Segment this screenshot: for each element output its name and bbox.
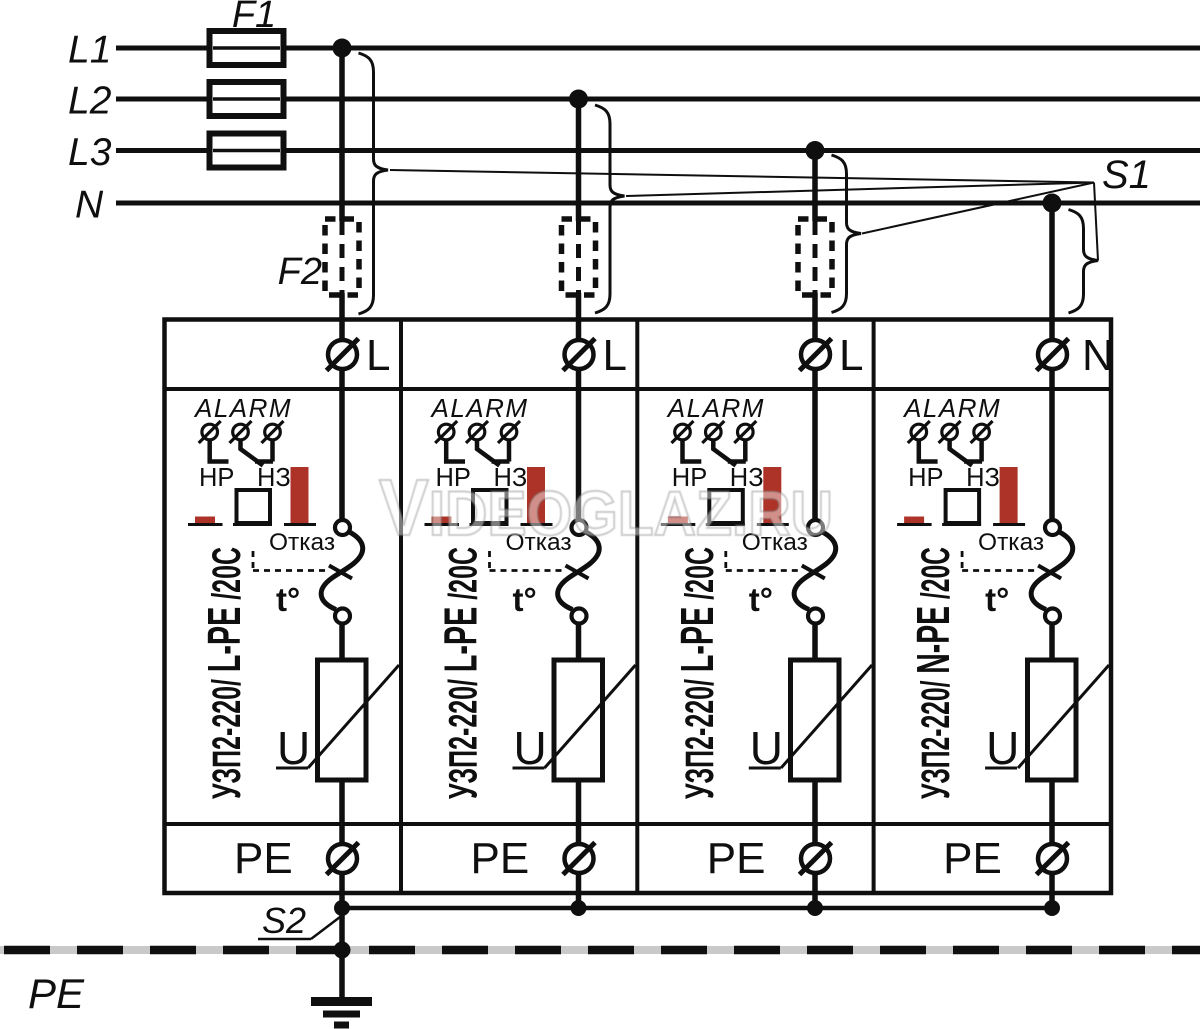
svg-text:F2: F2: [278, 251, 322, 293]
junction on N: [1043, 194, 1062, 213]
fuse F1 element on L3: [210, 134, 284, 168]
junction on L3: [806, 141, 825, 160]
svg-text:L1: L1: [68, 29, 111, 72]
ground (earth) symbol: [311, 997, 372, 1006]
brace S1 group N drop: [1069, 210, 1099, 314]
module U3 PE terminal: [801, 844, 830, 873]
svg-text:L3: L3: [68, 131, 112, 174]
dashed link to thermal disconnector: [961, 551, 964, 571]
svg-text:N: N: [75, 184, 104, 227]
line L1: [116, 46, 1200, 51]
svg-text:L: L: [603, 331, 627, 380]
svg-text:L2: L2: [68, 80, 112, 123]
leader line brace3 to S1: [862, 183, 1094, 234]
leader line brace1 to S1: [390, 170, 1094, 183]
dashed link to thermal disconnector: [252, 551, 255, 571]
varistor U: [318, 660, 367, 780]
svg-text:N: N: [1082, 331, 1114, 380]
line L2: [116, 97, 1200, 102]
svg-text:PE: PE: [471, 834, 530, 883]
svg-text:t°: t°: [749, 581, 773, 618]
svg-text:Отказ: Отказ: [978, 529, 1044, 556]
module U1 input terminal L: [328, 340, 357, 369]
indicator window square: [709, 490, 743, 523]
svg-text:НЗ: НЗ: [966, 464, 1000, 492]
svg-text:УЗП2-220/ L-PE /20C: УЗП2-220/ L-PE /20C: [671, 547, 723, 799]
svg-text:НР: НР: [199, 464, 234, 492]
junction on PE bus x=578.5: [571, 900, 587, 916]
wire drop from L3: [812, 151, 818, 222]
module U1 PE terminal: [328, 844, 357, 873]
indicator small red bar: [195, 517, 215, 524]
alarm contact terminal 2: [942, 424, 958, 440]
svg-text:Отказ: Отказ: [269, 529, 335, 556]
module U2 input terminal L: [565, 340, 594, 369]
column divider 1: [399, 320, 403, 894]
svg-text:U: U: [986, 722, 1019, 774]
dashed link to thermal disconnector: [724, 551, 727, 571]
alarm contact terminal 1: [438, 424, 454, 440]
module U3 input terminal L: [801, 340, 830, 369]
alarm contact terminal 1: [675, 424, 691, 440]
svg-text:S2: S2: [262, 900, 306, 941]
svg-text:НР: НР: [908, 464, 943, 492]
wire drop from N: [1049, 203, 1055, 362]
indicator tall red bar (Отказ): [763, 467, 781, 523]
alarm contact terminal 2: [469, 424, 485, 440]
svg-text:U: U: [514, 722, 547, 774]
device enclosure box: [165, 320, 1112, 894]
leader line S2 to wire: [311, 917, 340, 939]
line N: [116, 201, 1200, 206]
brace S1 group L2 drop: [595, 105, 625, 313]
wire drop from L1: [339, 48, 345, 221]
svg-text:t°: t°: [985, 581, 1009, 618]
fuse F2 (dashed) on drop x=342: [325, 219, 359, 295]
module U2 PE terminal: [565, 844, 594, 873]
wire to ground: [339, 908, 345, 997]
brace S1 group L3 drop: [832, 155, 862, 313]
junction on L2: [569, 90, 588, 109]
varistor U: [1028, 660, 1077, 780]
junction on PE bus x=342: [334, 900, 350, 916]
module U4 input terminal N: [1038, 340, 1067, 369]
svg-text:U: U: [750, 722, 783, 774]
fuse F1 element on L1: [210, 31, 284, 65]
alarm contact terminal 1: [911, 424, 927, 440]
PE main earthing bus (black dashes): [4, 946, 1200, 955]
NC contact (НЗ) wire: [477, 439, 500, 466]
fuse F2 (dashed) on drop x=815: [798, 219, 832, 295]
line L3: [116, 148, 1200, 153]
indicator window square: [237, 490, 271, 523]
PE main earthing bus (gray underlay): [0, 946, 1200, 954]
junction on PE bus: [334, 942, 351, 959]
column divider 3: [872, 320, 876, 894]
thermal disconnector contact: [572, 520, 587, 535]
SPD module U2 vertical wire: [576, 362, 582, 521]
svg-text:УЗП2-220/ N-PE /20C: УЗП2-220/ N-PE /20C: [907, 547, 959, 799]
alarm contact terminal 3: [265, 424, 281, 440]
indicator window square: [473, 490, 507, 523]
column divider 2: [635, 320, 639, 894]
brace S1 group L1 drop: [359, 53, 389, 314]
SPD module U4 vertical wire: [1049, 362, 1055, 521]
junction on PE bus x=815: [807, 900, 823, 916]
NC contact (НЗ) wire: [241, 439, 264, 466]
NO contact (НР) wire: [919, 440, 938, 462]
svg-text:ALARM: ALARM: [666, 393, 765, 423]
junction on PE bus x=1052: [1044, 900, 1060, 916]
SPD module U3 vertical wire: [812, 362, 818, 521]
varistor U: [554, 660, 603, 780]
indicator small red bar: [432, 517, 452, 524]
svg-text:ALARM: ALARM: [193, 393, 292, 423]
thermal disconnector contact: [808, 520, 823, 535]
svg-text:S1: S1: [1102, 153, 1151, 197]
thermal disconnector contact: [1045, 520, 1060, 535]
NO contact (НР) wire: [446, 440, 465, 462]
svg-text:ALARM: ALARM: [902, 393, 1001, 423]
svg-text:t°: t°: [513, 581, 537, 618]
alarm contact terminal 2: [706, 424, 722, 440]
wire drop from L2: [576, 99, 582, 221]
indicator tall red bar (Отказ): [527, 467, 545, 523]
svg-text:t°: t°: [276, 581, 300, 618]
varistor U: [791, 660, 840, 780]
alarm contact terminal 2: [233, 424, 249, 440]
NC contact (НЗ) wire: [950, 439, 973, 466]
alarm contact terminal 3: [501, 424, 517, 440]
svg-text:ALARM: ALARM: [430, 393, 529, 423]
alarm contact terminal 3: [974, 424, 990, 440]
indicator tall red bar (Отказ): [1000, 467, 1018, 523]
fuse F2 (dashed) on drop x=578.5: [562, 219, 596, 295]
svg-text:PE: PE: [28, 970, 85, 1017]
dashed link to thermal disconnector: [488, 551, 491, 571]
indicator tall red bar (Отказ): [291, 467, 309, 523]
alarm contact terminal 3: [738, 424, 754, 440]
NO contact (НР) wire: [210, 440, 229, 462]
svg-text:PE: PE: [234, 834, 293, 883]
svg-text:PE: PE: [943, 834, 1002, 883]
NO contact (НР) wire: [683, 440, 702, 462]
indicator window square: [946, 490, 980, 523]
svg-text:PE: PE: [707, 834, 766, 883]
svg-text:УЗП2-220/ L-PE /20C: УЗП2-220/ L-PE /20C: [198, 547, 250, 799]
svg-text:L: L: [366, 331, 390, 380]
leader line brace2 to S1: [626, 183, 1094, 197]
indicator small red bar: [668, 517, 688, 524]
divider under terminal row: [165, 387, 1112, 391]
divider above PE row: [165, 822, 1112, 826]
indicator small red bar: [904, 517, 924, 524]
svg-text:U: U: [277, 722, 310, 774]
thermal disconnector contact: [335, 520, 350, 535]
leader line brace4 to S1: [1094, 183, 1098, 261]
alarm contact terminal 1: [202, 424, 218, 440]
junction on L1: [333, 39, 352, 58]
svg-text:НЗ: НЗ: [257, 464, 291, 492]
module U4 PE terminal: [1038, 844, 1067, 873]
svg-text:УЗП2-220/ L-PE /20C: УЗП2-220/ L-PE /20C: [435, 547, 487, 799]
NC contact (НЗ) wire: [713, 439, 736, 466]
PE collector bus wire: [342, 906, 1052, 911]
svg-text:L: L: [839, 331, 863, 380]
fuse F1 element on L2: [210, 82, 284, 116]
SPD module U1 vertical wire: [339, 362, 345, 521]
